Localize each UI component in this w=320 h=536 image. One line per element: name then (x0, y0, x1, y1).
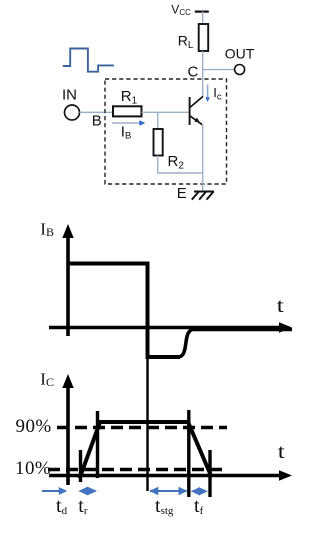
wire node C to OUT (203, 69, 235, 71)
tr interval arrow (78, 487, 97, 496)
IC waveform rising edge (80, 421, 101, 479)
resistor R1 (113, 106, 142, 116)
10% dashed level line (48, 468, 224, 472)
resistor R2 (154, 129, 163, 156)
dashed enclosure box (105, 79, 227, 184)
svg-text:OUT: OUT (225, 46, 255, 62)
svg-text:C: C (188, 63, 199, 80)
IC y-axis (66, 385, 70, 485)
tick t1 (10% of rise) (79, 450, 82, 482)
wire base junction to R2 (157, 112, 159, 129)
90% dashed level line (57, 426, 227, 430)
terminal IN (65, 105, 80, 120)
IC t-axis (49, 474, 281, 478)
current arrow Ic (207, 85, 209, 98)
IB t-axis (49, 326, 281, 330)
wire R1 to base (142, 111, 190, 113)
tf interval arrow (191, 487, 208, 495)
svg-text:t: t (277, 295, 285, 317)
transistor Q1 base bar (189, 97, 191, 125)
input pulse symbol (63, 49, 114, 72)
wire R2 to emitter rail (158, 156, 203, 174)
wire IN to R1 (80, 111, 114, 113)
transistor Q1 collector stroke (190, 96, 203, 107)
tstg interval arrow (149, 487, 187, 495)
svg-text:90%: 90% (16, 416, 52, 437)
VCC supply bar (195, 11, 209, 13)
transistor Q1 emitter arrowhead (194, 118, 200, 123)
IC waveform top and falling edge (98, 422, 211, 475)
terminal OUT (235, 65, 245, 75)
resistor RL (199, 24, 209, 51)
svg-text:B: B (92, 113, 102, 130)
IB y-axis (66, 235, 70, 336)
time alignment line at end of IB pulse (146, 340, 148, 491)
wire emitter down to rail and ground (202, 124, 204, 192)
svg-text:t: t (278, 441, 286, 463)
IB waveform recovery curve (178, 330, 293, 358)
transistor Q1 emitter stroke (190, 116, 202, 125)
wire RL to node C (202, 51, 204, 97)
ground symbol (192, 192, 214, 200)
td interval arrow (42, 487, 67, 495)
wire VCC to RL (202, 12, 204, 24)
tick t2 (90% of rise) (96, 411, 99, 478)
svg-text:E: E (177, 185, 187, 202)
tick t3 (start of fall) (187, 410, 190, 497)
IB waveform pulse (68, 264, 180, 358)
current arrow IB (112, 122, 140, 124)
svg-text:10%: 10% (15, 458, 51, 479)
svg-text:IN: IN (62, 86, 77, 103)
tick t4 (10% of fall) (208, 450, 211, 497)
